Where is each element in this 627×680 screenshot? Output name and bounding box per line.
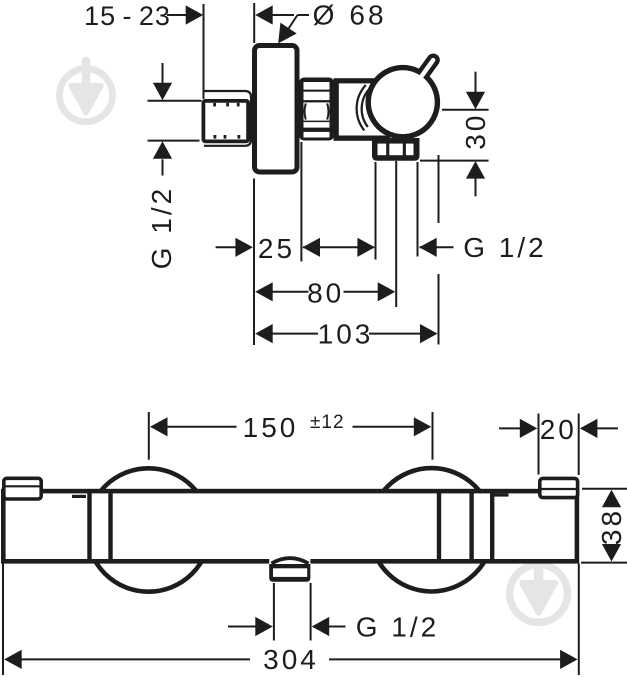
svg-text:68: 68 (349, 0, 386, 30)
svg-text:38: 38 (596, 508, 627, 545)
svg-text:25: 25 (258, 233, 295, 264)
svg-text:Ø: Ø (313, 0, 335, 31)
svg-text:150: 150 (243, 412, 299, 443)
svg-text:G 1/2: G 1/2 (463, 232, 546, 263)
svg-text:30: 30 (460, 113, 491, 150)
svg-text:304: 304 (263, 644, 319, 675)
svg-text:20: 20 (540, 414, 577, 445)
svg-text:103: 103 (318, 318, 374, 349)
svg-text:15 - 23: 15 - 23 (84, 1, 171, 31)
svg-text:G 1/2: G 1/2 (146, 186, 177, 269)
svg-text:±12: ±12 (310, 412, 345, 433)
svg-text:80: 80 (307, 278, 344, 309)
svg-text:G 1/2: G 1/2 (356, 612, 439, 643)
